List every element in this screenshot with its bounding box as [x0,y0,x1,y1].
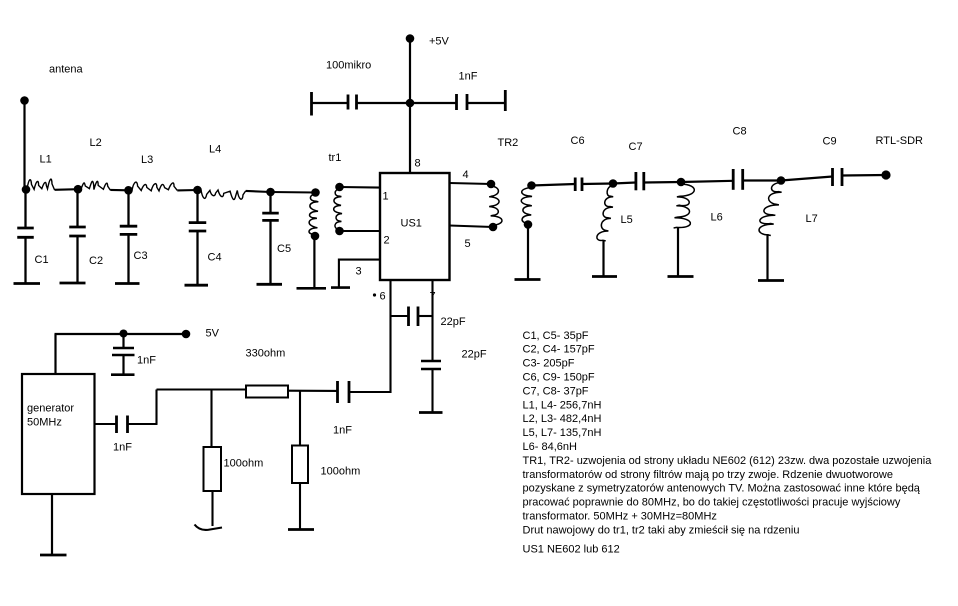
node 5V terminal [182,330,191,339]
resistor 100ohm #2 [292,446,308,484]
wire generator top to 5V rail [54,334,56,374]
capacitor 1nF (generator supply) [111,334,135,375]
ground bar under C1 [14,282,41,285]
svg-text:L3: L3 [141,154,153,166]
wire pin 8 to +5V rail [409,41,411,173]
hand-drawn ground stroke under 100ohm #1 [195,525,223,530]
inductor L4 [201,190,246,199]
node TR2 primary top [487,180,496,189]
wire down to resistor 100ohm #2 [299,391,301,446]
wire L4 to N5 [246,191,271,192]
svg-text:L2, L3- 482,4nH: L2, L3- 482,4nH [523,413,602,425]
capacitor 1nF (generator output) [117,416,128,434]
wire tr1 secondary bottom to pin 2 [340,230,381,232]
node tr1 primary top [311,188,320,197]
ground bar under C4 [185,284,209,287]
capacitor C8 [733,169,743,190]
node 5V junction [120,330,128,338]
wire C8 to L7 node [743,179,781,181]
node TR2 primary bottom [489,223,498,232]
svg-text:C4: C4 [208,252,222,264]
node tr1 primary bottom [311,232,320,241]
wire C9 to RTL-SDR terminal [842,174,886,177]
capacitor C1 [17,193,34,284]
svg-text:C5: C5 [277,243,291,255]
ground bar under L7 [758,279,784,282]
svg-text:+5V: +5V [429,36,450,48]
transformer tr1 secondary winding [334,189,342,230]
svg-text:2: 2 [384,235,390,247]
inductor L7 [759,183,782,236]
svg-text:L6: L6 [711,212,723,224]
wire generator to ground [51,494,53,554]
wire L5 to ground [602,240,604,276]
wire L2 to N3 [110,189,128,192]
ground bar under L6 [668,275,694,278]
svg-text:1nF: 1nF [333,425,352,437]
svg-text:C9: C9 [823,136,837,148]
resistor 100ohm #1 [204,447,222,491]
svg-text:US1 NE602 lub 612: US1 NE602 lub 612 [523,544,620,556]
node supply junction [406,99,415,108]
svg-text:generator: generator [27,403,74,415]
wire down to resistor R 100ohm #1 [210,390,212,448]
svg-text:antena: antena [49,64,84,76]
wire pin 4 to TR2 primary [450,183,492,184]
svg-text:L1, L4- 256,7nH: L1, L4- 256,7nH [523,399,602,411]
node N5 (L4/C5) [266,188,275,197]
transformer TR2 secondary winding [521,188,532,225]
svg-text:6: 6 [380,291,386,303]
svg-text:3: 3 [356,266,362,278]
capacitor C5 [262,196,279,284]
node N2 (L1/L2/C2) [74,185,83,194]
capacitor C4 [189,194,207,285]
svg-text:100ohm: 100ohm [321,466,361,478]
capacitor C2 [69,193,86,283]
wire to 330ohm [157,388,247,390]
ground bar under C3 [115,282,140,285]
capacitor 100mikro [312,92,411,116]
inductor L1 [27,179,55,190]
wire 5V rail [55,333,187,335]
svg-text:1: 1 [383,191,389,203]
capacitor 1nF (to pin 6) [338,381,350,403]
wire 1nF to riser [128,423,158,425]
inductor L6 [674,184,695,228]
svg-text:5: 5 [465,238,471,250]
svg-text:TR1, TR2- uzwojenia od strony: TR1, TR2- uzwojenia od strony układu NE6… [523,455,933,467]
svg-text:L1: L1 [40,154,52,166]
svg-text:C6: C6 [571,135,585,147]
transformer TR2 primary winding [489,186,502,226]
svg-text:C3: C3 [134,250,148,262]
wire pin 7 vertical upper [431,280,433,361]
node +5V terminal [406,34,415,43]
svg-text:C3- 205pF: C3- 205pF [523,358,575,370]
wire L6 to ground [677,228,679,276]
antenna terminal [20,96,29,105]
svg-text:L4: L4 [209,144,221,156]
svg-text:L6- 84,6nH: L6- 84,6nH [523,441,577,453]
wire L1 to N2 [55,188,78,191]
svg-text:22pF: 22pF [441,316,466,328]
ground bar under tr1 [297,287,327,290]
wire L7 to ground [766,234,768,280]
ground bar under TR2 secondary [515,278,541,281]
svg-text:100mikro: 100mikro [326,60,371,72]
node node C8/L7/C9 [777,176,786,185]
wire pin 5 to TR2 primary bottom [450,226,494,228]
svg-text:TR2: TR2 [498,137,519,149]
wire C6 to L5 node [582,182,613,185]
ground bar under L5 [592,275,617,278]
svg-text:L5: L5 [621,214,633,226]
node tr1 secondary bottom [335,227,344,236]
node N3 (L2/L3/C3) [124,186,133,195]
svg-text:RTL-SDR: RTL-SDR [876,135,924,147]
ground bar under generator [40,554,67,557]
svg-text:pracować poprawnie do 80MHz, b: pracować poprawnie do 80MHz, bo do takie… [523,497,901,509]
capacitor 22pF (pin 7 to ground) [421,361,441,412]
wire 1nF to pin 6 riser [349,391,392,393]
node N1 (antenna / L1 / C1) [22,185,31,194]
wire N5 to tr1 primary [271,191,316,194]
svg-text:4: 4 [463,169,469,181]
capacitor C7 [636,172,644,190]
wire 100ohm #1 to ground [211,491,213,526]
svg-text:1nF: 1nF [137,355,156,367]
ground bar under C5 [257,283,283,286]
svg-text:5V: 5V [206,328,220,340]
wire antenna down-lead [23,103,25,190]
inductor L3 [132,182,177,191]
capacitor C6 [575,178,582,192]
transformer tr1 primary winding [309,194,318,235]
node TR2 secondary top [527,181,536,190]
svg-text:1nF: 1nF [113,442,132,454]
wire 330ohm to 1nF [288,390,338,392]
wire L6 node to C8 [681,181,733,182]
svg-text:8: 8 [415,158,421,170]
op-amp / mixer IC US1 (NE602) [380,173,450,280]
wire L7 node to C9 [781,177,833,181]
inductor L2 [81,181,110,190]
capacitor C9 [833,168,843,186]
svg-text:L5, L7- 135,7nH: L5, L7- 135,7nH [523,427,602,439]
ground bar under C2 [60,282,86,285]
node node C6/L5/C7 [609,179,618,188]
node node C7/L6/C8 [677,178,686,187]
resistor 330ohm [246,386,288,398]
node tr1 secondary top [335,183,344,192]
capacitor 1nF (supply) [410,90,505,111]
inductor L5 [597,186,613,241]
svg-text:C2, C4- 157pF: C2, C4- 157pF [523,344,595,356]
svg-text:Drut nawojowy do tr1, tr2 taki: Drut nawojowy do tr1, tr2 taki aby zmieś… [523,524,800,536]
svg-text:C1, C5- 35pF: C1, C5- 35pF [523,330,589,342]
svg-text:C7: C7 [629,141,643,153]
svg-text:C7, C8- 37pF: C7, C8- 37pF [523,385,589,397]
svg-text:US1: US1 [401,218,422,230]
wire pin 6 vertical [389,280,391,393]
svg-text:1nF: 1nF [459,71,478,83]
svg-text:tr1: tr1 [329,152,342,164]
svg-text:pozyskane z symetryzatorów ant: pozyskane z symetryzatorów antenowych TV… [523,483,921,495]
node N4 (L3/L4/C4) [193,186,202,195]
wire generator output [95,423,117,425]
wire L3 to N4 [177,189,197,191]
node TR2 secondary bottom [524,220,533,229]
generator box [22,374,95,494]
svg-text:C1: C1 [35,254,49,266]
svg-text:L7: L7 [806,213,818,225]
svg-text:C8: C8 [733,126,747,138]
wire TR2 secondary to ground [527,227,529,279]
svg-text:transformatorów od strony filt: transformatorów od strony filtrów mają p… [523,469,893,481]
svg-text:330ohm: 330ohm [246,348,286,360]
svg-text:C2: C2 [89,255,103,267]
wire pin 3 to ground [339,260,380,288]
ground bar under 100ohm #2 [288,528,314,531]
svg-text:22pF: 22pF [462,349,487,361]
wire L5 node to C7 [613,183,636,184]
capacitor C3 [120,194,138,284]
wire tr1 secondary top to pin 1 [340,186,381,189]
wire C7 to L6 node [644,181,681,184]
tiny dot left of 6 [373,293,376,296]
svg-text:50MHz: 50MHz [27,417,62,429]
svg-text:transformator. 50MHz + 30MHz=8: transformator. 50MHz + 30MHz=80MHz [523,511,717,523]
node RTL-SDR output terminal [881,170,890,179]
svg-text:C6, C9- 150pF: C6, C9- 150pF [523,372,595,384]
capacitor 22pF (pins 6-7) [391,307,433,327]
ground bar under 22pF [419,411,443,414]
svg-text:L2: L2 [90,137,102,149]
wire TR2 to C6 [532,184,576,186]
wire 100ohm #2 to ground [299,483,301,529]
svg-text:100ohm: 100ohm [224,458,264,470]
wire tr1 primary bottom to ground [313,236,315,288]
wire riser up [155,390,157,425]
